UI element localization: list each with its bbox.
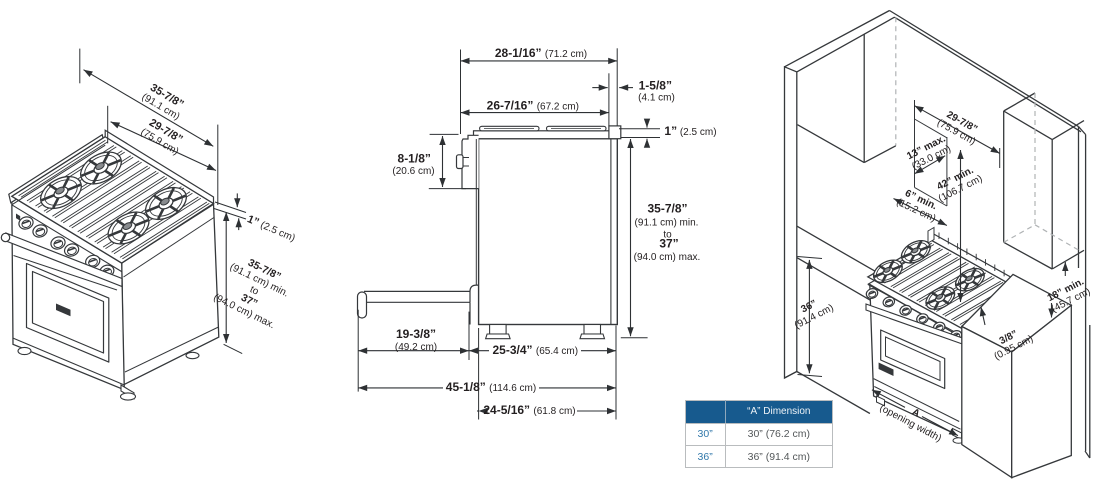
left view: cooktop top surface — [12, 137, 214, 263]
table: A Dimension — [685, 400, 833, 468]
svg-text:25-3/4” (65.4 cm): 25-3/4” (65.4 cm) — [493, 343, 579, 357]
right view: range drawer label — [879, 363, 894, 377]
right view: range feet — [877, 396, 885, 406]
middle view: door front seam — [475, 139, 477, 285]
right view: back wall right end — [1079, 127, 1086, 135]
left view: burner grates — [19, 140, 106, 196]
middle view: dim 1-5/8 — [592, 87, 607, 89]
svg-text:(4.1 cm): (4.1 cm) — [638, 93, 675, 104]
right view: range — [962, 305, 1037, 438]
right view: dim 36 left wall — [798, 257, 823, 259]
svg-text:24-5/16” (61.8 cm): 24-5/16” (61.8 cm) — [483, 403, 575, 417]
right view: right upper cabinet — [1004, 111, 1052, 140]
left view: control knobs — [16, 214, 20, 221]
middle view: backguard — [609, 126, 621, 139]
middle view: dim 1 inch — [619, 128, 660, 130]
middle view: feet — [490, 325, 507, 335]
left view: back rail — [105, 130, 213, 203]
right view: hood zone box — [914, 119, 916, 187]
right view: dim 13 max — [915, 156, 946, 174]
svg-text:(20.6 cm): (20.6 cm) — [392, 166, 434, 177]
svg-text:37”: 37” — [659, 237, 678, 251]
svg-text:(94.0 cm) max.: (94.0 cm) max. — [634, 252, 701, 263]
svg-text:19-3/8”: 19-3/8” — [396, 327, 436, 341]
right view: back wall top edges — [890, 11, 1079, 127]
svg-text:45-1/8” (114.6 cm): 45-1/8” (114.6 cm) — [446, 380, 536, 394]
svg-text:1” (2.5 cm): 1” (2.5 cm) — [664, 124, 716, 138]
right view: side wall — [785, 67, 797, 378]
left view: dim height 35-7/8 to 37 — [225, 212, 227, 343]
right view: left counter — [797, 226, 876, 272]
svg-text:8-1/8”: 8-1/8” — [398, 151, 431, 165]
left view: dim 35-7/8 width — [79, 49, 81, 84]
middle view: range side elevation body — [479, 139, 618, 325]
middle view: cooktop band — [474, 131, 612, 139]
right view: dim 29-7/8 opening — [914, 100, 916, 119]
left view: burners — [35, 170, 87, 215]
left view: oven door handle — [6, 233, 122, 287]
middle view: dim 26-7/16 — [608, 73, 610, 125]
left view: range isometric body — [122, 204, 219, 385]
left view: oven door window — [27, 264, 109, 363]
right view: dim 3/8 — [981, 307, 985, 325]
middle view: dim 28-1/16 — [460, 50, 462, 135]
svg-text:28-1/16” (71.2 cm): 28-1/16” (71.2 cm) — [495, 46, 587, 60]
right view: dim 18 min — [1064, 262, 1066, 276]
middle view: bottom dims — [357, 310, 359, 392]
left view: dim 1 inch top — [215, 202, 246, 213]
right view: dim 6 min — [894, 199, 947, 226]
svg-text:35-7/8”: 35-7/8” — [647, 202, 687, 216]
right view: left upper cabinet — [863, 35, 865, 163]
left view: side panel seams — [124, 218, 214, 278]
middle view: control panel — [462, 135, 479, 188]
right view: dim 42 min — [960, 150, 962, 302]
left view: drawer label — [56, 304, 71, 317]
left view: lower drawer band — [13, 338, 124, 385]
middle view: dim 8-1/8 — [430, 133, 459, 135]
middle view: open oven door — [364, 290, 470, 292]
left view: dim 29-7/8 — [107, 106, 109, 144]
right view: dim A opening width — [872, 390, 905, 408]
left view: cooktop band — [9, 135, 104, 203]
right view: right counter — [962, 274, 1072, 352]
svg-text:1-5/8”: 1-5/8” — [639, 78, 672, 92]
svg-text:(49.2 cm): (49.2 cm) — [395, 342, 437, 353]
svg-text:(91.1 cm) min.: (91.1 cm) min. — [635, 218, 699, 229]
left view: feet — [121, 385, 134, 399]
svg-text:26-7/16” (67.2 cm): 26-7/16” (67.2 cm) — [487, 99, 579, 113]
middle view: dim height 35-7/8 to 37 — [621, 337, 648, 339]
